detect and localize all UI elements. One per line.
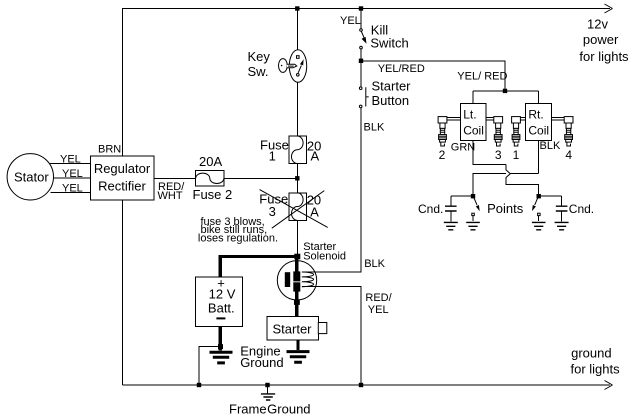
key switch S1 [279, 50, 307, 82]
svg-text:ground: ground [571, 346, 611, 361]
starter solenoid K1 [277, 261, 316, 300]
spark plug P3 [494, 117, 503, 146]
node junction top rail key [295, 6, 299, 10]
svg-text:YEL/RED: YEL/RED [378, 63, 425, 75]
label Engine Ground [240, 344, 283, 371]
wire plug 1 lead [520, 118, 525, 120]
svg-text:YEL: YEL [62, 182, 83, 194]
node junction right points [537, 194, 541, 198]
svg-text:Cnd.: Cnd. [569, 202, 594, 216]
svg-text:for lights: for lights [571, 362, 621, 377]
ignition coil T1 Lt. [460, 104, 486, 141]
wire fuse 2 to center node [224, 177, 297, 179]
node arrow 12v power [605, 4, 613, 13]
label 12v power for lights [579, 16, 629, 64]
node junction YEL/RED tap [359, 59, 363, 63]
node junction solenoid top [294, 254, 300, 260]
svg-text:loses regulation.: loses regulation. [198, 233, 278, 245]
wire top power rail [122, 8, 610, 10]
X cross over fuse 3 [260, 190, 328, 229]
wire regulator to fuse 2 [154, 177, 196, 179]
svg-text:2: 2 [439, 148, 446, 162]
wire kill switch drop from rail [360, 9, 362, 29]
svg-text:Key: Key [248, 49, 271, 64]
ground right points [532, 222, 546, 229]
wire left ground rail drop [122, 200, 124, 385]
svg-text:YEL: YEL [60, 153, 81, 165]
node junction solenoid bottom [294, 300, 300, 305]
starter button S3 [359, 87, 368, 108]
wire plug 4 lead [551, 118, 564, 120]
wire YEL/RED to coils [361, 61, 539, 104]
ground right condenser [555, 222, 569, 229]
svg-text:Fuse 2: Fuse 2 [193, 187, 233, 202]
svg-text:3: 3 [269, 204, 276, 219]
wire crossover hop [506, 170, 510, 178]
svg-text:4: 4 [565, 148, 572, 162]
label Key Sw. [248, 49, 271, 79]
wire YEL stator phase 1 [50, 162, 90, 164]
svg-text:Coil: Coil [463, 123, 484, 137]
label Fuse 3 [259, 191, 288, 219]
svg-text:20A: 20A [199, 154, 222, 169]
svg-text:for lights: for lights [579, 49, 629, 64]
node junction top rail kill [359, 6, 363, 10]
label ground for lights [571, 346, 621, 377]
wire right condenser tap [539, 196, 562, 205]
svg-text:Lt.: Lt. [463, 108, 476, 122]
ground engine battery [210, 352, 233, 363]
svg-text:power: power [583, 32, 619, 47]
svg-text:BLK: BLK [364, 258, 385, 270]
kill switch S2 [360, 29, 367, 49]
svg-text:Frame Ground: Frame Ground [229, 402, 311, 417]
label Starter Solenoid [303, 241, 346, 263]
node junction rail frame ground [265, 383, 269, 387]
svg-text:Switch: Switch [370, 36, 408, 51]
svg-text:YEL: YEL [368, 304, 389, 316]
wire YEL stator phase 2 [54, 177, 91, 179]
wire solenoid contact top thick [295, 256, 299, 271]
points left breaker [472, 198, 480, 222]
wire Rt coil secondary to left points [473, 140, 539, 196]
wire battery positive thick [220, 256, 296, 277]
wire YEL stator phase 3 [51, 191, 91, 193]
ground left points [466, 222, 480, 229]
node junction left points [471, 194, 475, 198]
battery BT1 12V [196, 276, 243, 327]
wire plug 3 lead [486, 118, 494, 120]
fuse F1 20A [289, 136, 306, 164]
wire Lt coil secondary to right points [473, 140, 539, 196]
label Starter Button [372, 78, 412, 108]
capacitor C2 Cnd. right [556, 206, 568, 221]
stator M1 [7, 154, 53, 200]
svg-text:YEL/ RED: YEL/ RED [457, 71, 507, 83]
label Kill Switch [370, 23, 408, 51]
svg-text:WHT: WHT [158, 190, 183, 202]
svg-text:BLK: BLK [540, 140, 561, 152]
svg-text:Batt.: Batt. [208, 300, 235, 315]
svg-text:A: A [311, 148, 320, 163]
wire bottom ground rail [123, 384, 611, 386]
svg-text:A: A [310, 204, 319, 219]
label RED/ YEL [365, 292, 392, 316]
svg-text:1: 1 [513, 148, 520, 162]
ignition coil T2 Rt. [526, 104, 552, 141]
wire starter ground thick [296, 340, 299, 350]
node junction rail engine ground [197, 383, 201, 387]
label 20 A fuse 3 [307, 193, 321, 220]
svg-text:Button: Button [372, 93, 410, 108]
wire BRN left drop to regulator [122, 9, 124, 157]
wire key switch to fuse 1 [296, 82, 298, 136]
fuse F2 20A [196, 171, 224, 186]
wire solenoid contact bottom thick [295, 291, 299, 317]
svg-text:BLK: BLK [364, 121, 385, 133]
spark plug P1 [512, 117, 521, 146]
svg-text:YEL: YEL [340, 15, 361, 27]
label Fuse 1 [260, 137, 289, 163]
node arrow ground for lights [605, 381, 613, 390]
capacitor C1 Cnd. left [445, 206, 457, 221]
wire plug 2 lead [447, 118, 460, 120]
svg-text:12v: 12v [587, 16, 608, 31]
wire fuse 1 to fuse 3 [296, 164, 298, 193]
svg-text:Points: Points [487, 201, 524, 216]
wire battery negative thick [219, 327, 222, 351]
points right breaker [532, 198, 540, 222]
label 20 A fuse 1 [307, 138, 321, 163]
svg-text:Solenoid: Solenoid [303, 251, 346, 263]
svg-text:1: 1 [269, 148, 276, 163]
node junction fuse feed [295, 176, 299, 180]
svg-text:Coil: Coil [528, 123, 549, 137]
note fuse 3 blows [198, 216, 278, 245]
node junction engine ground link [218, 344, 223, 349]
wire starter button to solenoid coil BLK [302, 108, 361, 272]
spark plug P2 [438, 117, 447, 146]
spark plug P4 [564, 117, 573, 146]
wire left condenser tap [451, 196, 473, 205]
svg-text:3: 3 [495, 148, 502, 162]
svg-text:RED/: RED/ [365, 292, 392, 304]
svg-text:YEL: YEL [62, 168, 83, 180]
svg-text:Regulator: Regulator [94, 161, 151, 176]
svg-text:Rt.: Rt. [528, 108, 543, 122]
label RED/WHT [158, 181, 186, 202]
node junction coil feed [503, 89, 507, 93]
fuse F3 20A [289, 193, 306, 221]
ground frame [261, 385, 275, 400]
svg-text:Stator: Stator [14, 169, 49, 184]
ground left condenser [444, 222, 458, 229]
wire kill switch to starter button [360, 49, 362, 87]
ground engine starter [287, 352, 310, 363]
svg-text:Ground: Ground [240, 355, 283, 370]
starter motor M2 [267, 317, 327, 340]
svg-text:Sw.: Sw. [248, 64, 269, 79]
svg-text:Rectifier: Rectifier [98, 178, 146, 193]
regulator rectifier U1 [90, 156, 154, 200]
svg-text:Starter: Starter [272, 321, 312, 336]
wire key switch feed from rail [296, 9, 298, 50]
svg-text:Starter: Starter [372, 78, 412, 93]
node junction rail red-yel [359, 383, 363, 387]
svg-text:Cnd.: Cnd. [418, 202, 443, 216]
wire engine ground to frame rail [199, 347, 221, 386]
svg-text:GRN: GRN [451, 142, 476, 154]
wire fuse 3 to solenoid [296, 220, 298, 256]
wire solenoid coil out RED/YEL [302, 287, 361, 385]
svg-text:BRN: BRN [98, 144, 121, 156]
